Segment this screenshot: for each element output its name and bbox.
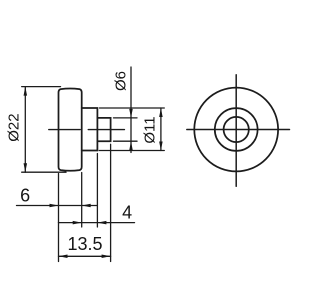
svg-text:Ø11: Ø11 [142,116,159,143]
dimension Ø22: dimension line [24,87,26,173]
svg-text:6: 6 [20,185,30,205]
arrowhead dim6 right (pointing left) [82,204,91,208]
dimension Ø6: dimension line [130,67,132,153]
dimension Ø11: extension lines [99,108,164,151]
arrowhead dim4 right (pointing left) [97,221,106,225]
arrowhead dim13.5 left (pointing left) [59,255,68,258]
arrowhead dim4 left (pointing right) [73,221,82,225]
dimension Ø6: extension lines [114,118,138,141]
arrowhead dim13.5 right (pointing right) [102,255,111,258]
bottom extension lines [59,144,111,261]
arrowhead Ø11 top [159,108,163,117]
svg-text:Ø22: Ø22 [5,113,22,141]
front view inner circle (Ø6) [224,117,249,142]
roller body (side view, Ø22 crowned roller) [59,88,82,170]
front view horizontal centerline [187,129,290,131]
front view middle circle (Ø11) [215,108,258,151]
svg-text:Ø6: Ø6 [113,71,130,91]
dimension 6: dimension line [17,205,98,207]
centerline of side view [49,129,125,131]
arrowhead Ø22 top [24,87,28,96]
front view outer circle (Ø22) [194,88,278,172]
front view vertical centerline [235,75,237,187]
svg-text:4: 4 [122,203,132,223]
arrowhead Ø11 bottom [159,142,163,151]
dimension Ø22: extension lines [22,87,66,173]
svg-text:13.5: 13.5 [67,234,102,254]
arrowhead Ø6 bottom (outside, pointing up) [129,141,133,150]
arrowhead Ø22 bottom [24,163,28,172]
shaft (Ø6 stub) [97,118,110,141]
arrowhead Ø6 top (outside, pointing down) [129,109,133,118]
dimension Ø11: dimension line [160,108,162,151]
arrowhead dim6 left (pointing right) [50,204,59,208]
flange (Ø11 hub, 4 wide) [82,108,98,151]
dimension 13.5: dimension line [59,255,111,257]
dimension 4: dimension line [59,222,135,224]
